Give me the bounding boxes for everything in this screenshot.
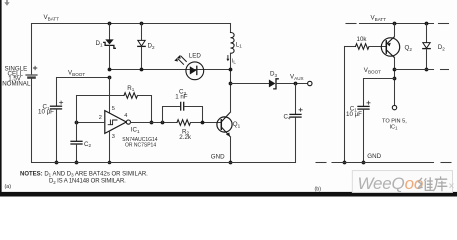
diode D2 1N4148	[138, 40, 145, 46]
wire 10k down to gnd	[344, 47, 346, 163]
svg-text:OR NC7SP14: OR NC7SP14	[125, 143, 156, 149]
resistor 10k	[356, 44, 369, 50]
node D1 anode junction	[108, 68, 112, 72]
svg-text:NOTES: D1 AND D3 ARE BAT42s OR: NOTES: D1 AND D3 ARE BAT42s OR SIMILAR.	[20, 171, 148, 177]
wire GND rail (b)	[332, 162, 434, 164]
wire V_BOOT (b)	[364, 78, 395, 80]
watermark CJK 库	[433, 176, 447, 191]
node R1 output junction	[150, 121, 154, 125]
wire V_BATT rail (a)	[32, 23, 231, 25]
wire battery bottom	[31, 79, 33, 163]
svg-text:NOMINAL: NOMINAL	[2, 81, 31, 88]
node V_BOOT junction	[108, 76, 112, 80]
wire GND right dash	[441, 162, 451, 164]
wire GND rail (a)	[32, 162, 296, 164]
wire D1 bottom	[109, 46, 111, 70]
svg-text:(b): (b)	[315, 187, 322, 193]
node C4 junction	[294, 82, 298, 86]
wire lower rail right dash	[441, 69, 449, 71]
wire 10k left	[345, 46, 356, 48]
svg-text:IC1: IC1	[390, 124, 399, 130]
node D2b lower junction	[425, 68, 429, 72]
wire IC1 output	[131, 122, 178, 124]
inductor L1	[231, 33, 235, 54]
wire D2b top	[426, 24, 428, 43]
svg-text:IL: IL	[232, 58, 237, 64]
node Q1 emitter gnd junction	[229, 161, 233, 165]
transistor Q2 PNP	[381, 37, 399, 57]
resistor R1	[124, 93, 137, 99]
bottom black bar	[0, 192, 457, 197]
terminal TO PIN 5	[392, 105, 396, 109]
wire IC1 input	[77, 122, 105, 124]
wire R1 right	[138, 96, 152, 123]
svg-text:(a): (a)	[5, 184, 12, 190]
node C3 right junction	[201, 121, 205, 125]
op-amp IC1 SN74AUC1G14 inverter	[105, 111, 131, 134]
wire L1 bottom	[230, 53, 232, 83]
node Q2/rail junction	[393, 68, 397, 72]
node 10k gnd junction	[343, 161, 347, 165]
wire C2 bottom	[76, 145, 78, 163]
svg-text:LED: LED	[189, 53, 202, 60]
svg-text:10 µF: 10 µF	[38, 109, 54, 116]
wire C3 left riser	[163, 107, 180, 123]
terminal VAUX	[308, 81, 312, 85]
svg-text:D2 IS A 1N4148 OR SIMILAR.: D2 IS A 1N4148 OR SIMILAR.	[49, 179, 126, 185]
wire C1b bottom	[363, 110, 365, 163]
left edge black line	[0, 0, 2, 196]
svg-text:WeeQoo: WeeQoo	[358, 174, 424, 193]
svg-text:3: 3	[112, 134, 115, 140]
svg-text:2.2k: 2.2k	[179, 134, 192, 141]
transistor Q1 NPN	[217, 112, 232, 137]
svg-text:10 µF: 10 µF	[346, 111, 362, 118]
wire D1 top	[109, 24, 111, 40]
node Q2 emitter junction	[393, 22, 397, 26]
wire Q1 collector	[230, 83, 232, 112]
node L1/LED junction	[229, 68, 233, 72]
node input junction	[75, 121, 79, 125]
wire GND left dash	[316, 162, 326, 164]
notes text	[5, 171, 322, 192]
capacitor C1 10uF	[51, 101, 63, 109]
node V_BATT/D1 junction	[108, 22, 112, 26]
watermark x mark	[450, 184, 454, 189]
node V_BATT/D2 junction	[140, 22, 144, 26]
node C1b gnd junction	[362, 161, 366, 165]
battery B1 single cell	[26, 66, 37, 77]
wire C1b top	[363, 79, 365, 106]
wire L1 top	[230, 24, 232, 33]
wire Q1 emitter to gnd	[230, 137, 232, 163]
resistor R2 2.2k	[177, 120, 190, 126]
wire D3 left	[231, 83, 269, 85]
wire C1 bottom	[56, 110, 58, 163]
svg-text:1 nF: 1 nF	[175, 94, 188, 101]
wire IC1 pin3 ground	[109, 131, 111, 162]
wire D3 to VAUX	[277, 83, 308, 85]
node D2 anode junction	[140, 68, 144, 72]
wire C2 top	[76, 123, 78, 141]
diode D3 BAT42 schottky	[269, 79, 278, 89]
wire D2b bottom	[426, 49, 428, 69]
gray cursor arrow top-left	[4, 0, 9, 6]
wire V_BATT right dash	[439, 23, 449, 25]
wire R1 left riser	[76, 96, 78, 123]
LED indicator	[174, 55, 203, 80]
watermark CJK 维	[418, 177, 434, 190]
svg-text:2: 2	[99, 115, 102, 121]
wire R1 left	[77, 95, 125, 97]
wire R2 to Q1 base	[191, 122, 222, 124]
svg-text:5: 5	[112, 106, 115, 112]
wire Q2 collector down	[394, 57, 396, 105]
node pin3 gnd junction	[108, 161, 112, 165]
node C3 left junction	[161, 121, 165, 125]
wire D2 top	[141, 24, 143, 41]
svg-text:GND: GND	[367, 153, 381, 160]
wire C4 top	[295, 84, 297, 114]
wire C3 right riser	[185, 107, 203, 123]
diode D1 BAT42 schottky	[104, 39, 116, 48]
capacitor C4	[290, 108, 302, 117]
node L1/D3 junction	[229, 82, 233, 86]
wire C1 top	[56, 78, 58, 106]
wire D2 bottom	[141, 47, 143, 70]
wire mid rail V_LED	[110, 69, 231, 71]
wire V_BATT rail (b)	[360, 23, 434, 25]
node D2b junction	[425, 22, 429, 26]
diode D2 (b) 1N4148	[423, 43, 430, 49]
svg-text:GND: GND	[211, 154, 225, 161]
watermark box	[352, 171, 453, 193]
wire 10k to Q2 base	[369, 46, 386, 48]
wire V_BOOT (a)	[57, 77, 110, 79]
node Q2/VBOOT junction	[393, 77, 397, 81]
capacitor C3 1nF	[181, 102, 184, 110]
svg-text:10k: 10k	[357, 36, 368, 43]
capacitor C1 (b) 10uF	[358, 101, 370, 109]
wire lower rail (b)	[395, 69, 434, 71]
current arrow IL	[226, 56, 229, 62]
node C1 gnd junction	[55, 161, 59, 165]
capacitor C2	[71, 141, 82, 144]
node C2 gnd junction	[75, 161, 79, 165]
wire IC1 pin5 supply	[109, 78, 111, 113]
wire V_BATT left dash	[346, 23, 356, 25]
wire battery top	[31, 24, 33, 74]
svg-text:4: 4	[124, 113, 127, 119]
wire Q2 emitter up	[394, 24, 396, 38]
wire C4 bottom	[295, 118, 297, 163]
